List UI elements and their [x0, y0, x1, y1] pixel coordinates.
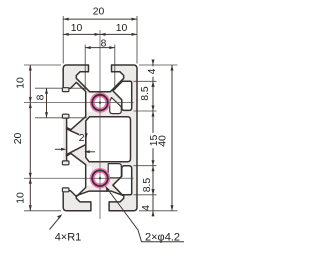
dim 10/10 top	[63, 33, 137, 35]
ext 8-top right into slot	[114, 45, 116, 90]
ext right chain upper chamber top	[134, 80, 157, 82]
dim 10 left arrows	[29, 65, 32, 71]
svg-text:4: 4	[147, 68, 158, 74]
halo for text 2	[79, 134, 85, 141]
svg-text:40: 40	[158, 135, 169, 147]
dim 10 left lower	[29, 178, 31, 211]
hole 1 circle	[92, 95, 108, 111]
white pocket right of hole 2 boss	[108, 164, 121, 178]
dim 20 left arrows	[29, 103, 32, 109]
hole 2 center dot	[99, 177, 101, 179]
upper-left slot lip tab 1	[62, 88, 69, 92]
left surface wall outline	[63, 114, 66, 164]
svg-text:2: 2	[79, 133, 85, 144]
leader 4xR1	[50, 216, 62, 230]
ext top edge rightward	[139, 64, 178, 66]
svg-text:10: 10	[116, 23, 128, 34]
svg-text:10: 10	[71, 23, 83, 34]
aluminum extrusion profile body (cross-section, filled)	[63, 65, 137, 211]
upper-left slot lip tab 2	[62, 114, 69, 118]
svg-text:4: 4	[141, 205, 152, 211]
dim 10 left lower arrows	[29, 178, 32, 184]
wall-2 arrow right	[84, 150, 90, 153]
hole 2 circle	[92, 170, 108, 186]
hole 1 pink highlight ring	[90, 92, 110, 112]
wall-2 arrow tails	[55, 149, 95, 152]
white pocket left of hole 2 boss	[86, 167, 92, 186]
dimension lines	[30, 19, 172, 216]
vertical centerline	[99, 30, 101, 219]
ext right chain lower chamber bottom	[134, 194, 157, 196]
profile outline strokes	[62, 65, 137, 211]
dim 8 arrows	[85, 46, 91, 49]
upper right chamber	[113, 81, 132, 110]
ext right chain lower chamber top	[134, 165, 157, 167]
white pocket left of hole 1 boss	[86, 94, 92, 112]
dim 8 left arrows	[45, 88, 48, 94]
svg-text:8.5: 8.5	[142, 178, 153, 193]
svg-text:8: 8	[101, 39, 107, 50]
leader 2xphi4.2	[106, 187, 184, 242]
dim 20 top	[63, 18, 137, 20]
svg-text:8: 8	[36, 94, 47, 100]
lower right chamber	[113, 166, 132, 195]
svg-text:10: 10	[16, 192, 27, 204]
svg-text:8.5: 8.5	[140, 86, 151, 101]
hole 1 center dot	[99, 102, 101, 104]
svg-text:20: 20	[13, 133, 24, 145]
svg-text:2×φ4.2: 2×φ4.2	[145, 232, 180, 244]
lower-left slot lip tab 4	[62, 188, 69, 192]
lower-left slot lip tab 3	[62, 161, 69, 165]
svg-text:4×R1: 4×R1	[55, 231, 82, 243]
ext bottom edge rightward	[139, 210, 178, 212]
white pocket right of hole 1 boss	[110, 98, 122, 114]
ext bottom edge leftward	[24, 210, 61, 212]
dim 20 left	[29, 103, 31, 179]
dim 40 arrows	[171, 65, 174, 71]
dim 8 left	[46, 88, 48, 118]
horizontal centerline hole 2	[24, 177, 134, 179]
wall-2 arrow down at wedge tip	[85, 133, 88, 138]
right chain arrows	[152, 60, 155, 66]
svg-text:20: 20	[93, 7, 105, 18]
dim right chain	[152, 60, 154, 217]
left surface wall between slots (solid)	[63, 114, 66, 164]
ext top-right corner up	[136, 16, 138, 64]
outer outline with slots	[63, 65, 137, 211]
ext left-8 upper	[35, 87, 87, 89]
dim 10/10 arrows	[63, 33, 68, 36]
dim 40 right	[171, 65, 173, 211]
svg-text:10: 10	[16, 77, 27, 89]
wall-2 arrow left	[61, 148, 67, 151]
hole 2 pink highlight ring	[90, 168, 110, 188]
ext left-8 lower	[35, 117, 87, 119]
ext top edge leftward	[24, 64, 61, 66]
ext top-left corner up	[62, 16, 64, 64]
dim 20 arrows	[63, 18, 68, 21]
ext right chain upper chamber bottom	[134, 110, 157, 112]
ext 8-top left into slot	[84, 45, 86, 90]
halo behind on-line chain texts	[148, 66, 157, 76]
dim 10 left upper	[29, 65, 31, 103]
horizontal centerline hole 1	[24, 102, 134, 104]
arrowheads	[29, 18, 174, 217]
dim 8 top	[85, 47, 115, 49]
extension and center lines	[24, 16, 178, 211]
central hollow cavity (void)	[86, 117, 131, 162]
